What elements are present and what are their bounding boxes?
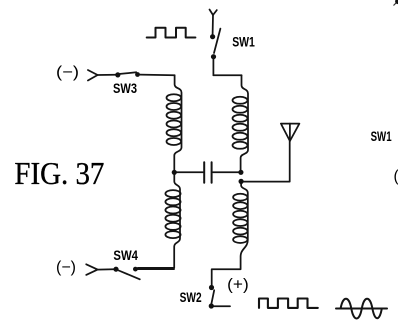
svg-text:FIG. 37: FIG. 37 [14,156,104,191]
svg-text:(−): (−) [56,259,76,276]
svg-text:SW1: SW1 [371,129,392,144]
svg-text:SW4: SW4 [113,248,138,263]
svg-text:(−): (−) [56,64,79,81]
svg-text:(: ( [394,168,398,185]
svg-text:SW1: SW1 [232,35,255,50]
svg-text:SW3: SW3 [113,81,137,96]
svg-text:SW2: SW2 [180,290,202,305]
svg-text:(+): (+) [227,276,249,293]
